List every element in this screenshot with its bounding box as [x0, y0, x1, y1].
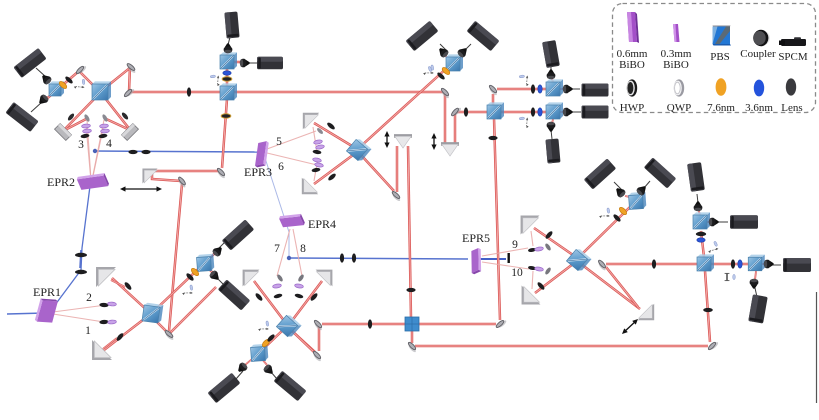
svg-text:1: 1 — [85, 325, 91, 337]
svg-text:BiBO: BiBO — [663, 59, 689, 71]
svg-text:8: 8 — [300, 243, 306, 255]
svg-text:3: 3 — [78, 139, 84, 151]
svg-text:QWP: QWP — [667, 102, 691, 114]
svg-text:9: 9 — [512, 239, 518, 251]
svg-text:5: 5 — [276, 136, 282, 148]
svg-text:7.6nm: 7.6nm — [707, 102, 735, 114]
svg-text:4: 4 — [106, 138, 112, 150]
svg-text:7: 7 — [274, 243, 280, 255]
svg-text:2: 2 — [86, 292, 92, 304]
svg-text:3.6nm: 3.6nm — [745, 102, 773, 114]
svg-text:10: 10 — [511, 267, 523, 279]
svg-text:Lens: Lens — [781, 102, 802, 114]
svg-text:BiBO: BiBO — [619, 59, 645, 71]
svg-text:PBS: PBS — [710, 51, 730, 63]
svg-text:EPR3: EPR3 — [244, 165, 272, 179]
svg-text:EPR4: EPR4 — [308, 217, 336, 231]
svg-text:EPR2: EPR2 — [47, 175, 75, 189]
svg-text:HWP: HWP — [620, 102, 644, 114]
svg-text:SPCM: SPCM — [778, 51, 808, 63]
svg-text:EPR1: EPR1 — [33, 285, 61, 299]
svg-text:EPR5: EPR5 — [462, 231, 490, 245]
svg-text:Coupler: Coupler — [740, 48, 776, 60]
svg-text:6: 6 — [278, 161, 284, 173]
